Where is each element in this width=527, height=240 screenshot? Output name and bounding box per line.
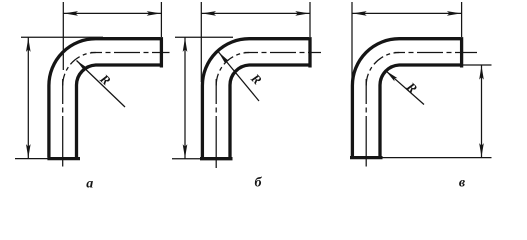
left dimension line xyxy=(27,37,29,158)
svg-text:в: в xyxy=(459,176,466,191)
radius leader R xyxy=(386,71,424,105)
centerline horizontal axis xyxy=(395,52,478,54)
pipe right end cap xyxy=(160,37,163,67)
centerline bend arc xyxy=(216,53,249,86)
extension line: top dim right (pipe end) xyxy=(160,2,162,37)
extension line: right dim bottom (pipe bottom end) xyxy=(383,157,492,159)
centerline bend arc xyxy=(63,53,96,86)
extension line: top dim left (pipe vertical axis) xyxy=(62,2,64,70)
pipe outer contour xyxy=(202,39,308,158)
pipe outer contour: left edge + outer bend arc + top edge xyxy=(49,39,160,158)
centerline vertical axis xyxy=(365,79,367,167)
extension line: top dim left (left outer surface) xyxy=(351,2,353,82)
svg-text:а: а xyxy=(86,176,93,191)
pipe inner contour xyxy=(230,65,309,157)
centerline vertical axis xyxy=(62,79,64,167)
pipe right end cap xyxy=(460,37,463,67)
extension line: left dim top (pipe top surface) xyxy=(21,36,103,38)
radius leader R xyxy=(77,61,126,108)
pipe bottom end cap xyxy=(47,157,80,160)
svg-text:R: R xyxy=(97,70,114,88)
extension line: top dim right (pipe end) xyxy=(309,2,311,37)
pipe bottom end cap xyxy=(350,156,383,159)
centerline horizontal axis xyxy=(245,52,322,54)
svg-text:б: б xyxy=(255,176,263,191)
extension line: top dim left (left outer surface) xyxy=(200,2,202,82)
extension line: left dim top (pipe top surface) xyxy=(175,36,233,38)
extension line: left dim bottom (pipe bottom end) xyxy=(15,158,48,160)
top dimension line xyxy=(63,12,161,14)
top dimension line xyxy=(201,12,310,14)
radius leader R xyxy=(219,52,260,101)
svg-text:R: R xyxy=(247,70,265,88)
top dimension line xyxy=(352,12,462,14)
centerline horizontal axis xyxy=(91,52,170,54)
pipe outer contour xyxy=(352,39,460,158)
centerline vertical axis xyxy=(215,79,217,168)
extension line: top dim right (pipe end) xyxy=(461,2,463,37)
right dimension line xyxy=(481,65,483,158)
extension line: left dim bottom (pipe bottom end) xyxy=(172,158,202,160)
pipe bottom end cap xyxy=(200,157,233,160)
pipe inner contour: right edge + inner bend arc + bottom edge xyxy=(77,65,161,157)
left dimension line xyxy=(184,37,186,159)
centerline bend arc xyxy=(366,53,399,86)
pipe right end cap xyxy=(308,37,311,67)
svg-text:R: R xyxy=(403,78,421,96)
pipe inner contour xyxy=(380,65,460,157)
extension line: right dim top (pipe bottom surface) xyxy=(463,64,492,66)
